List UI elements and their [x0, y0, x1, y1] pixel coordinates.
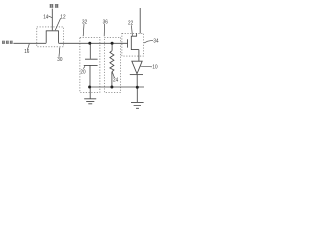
svg-text:20: 20 — [80, 69, 85, 75]
ground symbol left — [84, 87, 96, 104]
wire select gate line — [51, 9, 53, 31]
svg-text:32: 32 — [82, 19, 87, 25]
leader for 16 — [27, 44, 29, 50]
transistor Q2 drive TFT channel — [131, 33, 139, 49]
leader for 34 — [144, 40, 153, 43]
leader for 20 — [83, 66, 85, 69]
wire supply line — [139, 8, 141, 33]
leader for 30 — [58, 47, 61, 56]
junction node dot rail-diode — [136, 86, 139, 89]
ground symbol right — [131, 87, 144, 108]
wire resistor top lead — [111, 43, 113, 50]
leader for 32 — [82, 24, 85, 36]
svg-text:10: 10 — [152, 64, 157, 70]
leader for 24 — [112, 72, 114, 78]
node label select-line text (CJK blob) — [50, 4, 59, 8]
leader for 12 — [55, 18, 60, 30]
leader for 14 — [48, 16, 52, 18]
transistor Q1 select TFT channel — [46, 31, 59, 43]
wire ground rail — [90, 86, 144, 88]
diode D 10 triangle — [132, 61, 142, 74]
wire drive TFT drain to diode — [138, 50, 140, 62]
svg-text:30: 30 — [57, 57, 62, 63]
svg-text:12: 12 — [60, 15, 65, 21]
wire data line left segment — [13, 42, 46, 44]
dashed box resistor 24 — [104, 37, 120, 92]
wire data line right segment to drive gate — [59, 42, 128, 44]
leader for 10 — [140, 65, 152, 68]
leader for 36 — [103, 24, 105, 36]
leader for 22 — [131, 25, 132, 36]
dashed box drive TFT 22 — [122, 33, 144, 56]
junction node dot data-res — [111, 42, 114, 45]
wire capacitor bottom lead — [89, 65, 91, 87]
resistor R 24 zigzag — [110, 51, 114, 72]
svg-text:36: 36 — [103, 19, 108, 25]
node label data-line text (CJK blob) — [2, 41, 13, 44]
svg-text:16: 16 — [24, 49, 29, 55]
svg-text:22: 22 — [128, 20, 133, 26]
dashed box capacitor 20 — [80, 37, 100, 92]
svg-text:24: 24 — [113, 78, 119, 84]
junction node dot data-cap — [88, 42, 91, 45]
svg-text:34: 34 — [153, 38, 159, 44]
dashed box select TFT 12 — [37, 27, 64, 47]
capacitor C 20 plates — [84, 59, 98, 65]
junction node dot rail-cap — [88, 86, 91, 89]
svg-text:14: 14 — [43, 15, 49, 21]
junction node dot rail-res — [110, 86, 113, 89]
diode D 10 cathode bar — [130, 74, 143, 76]
wire resistor bottom lead — [111, 72, 113, 87]
wire capacitor top lead — [89, 43, 91, 59]
wire diode to rail — [136, 75, 138, 88]
transistor Q2 gate bar — [127, 39, 129, 47]
